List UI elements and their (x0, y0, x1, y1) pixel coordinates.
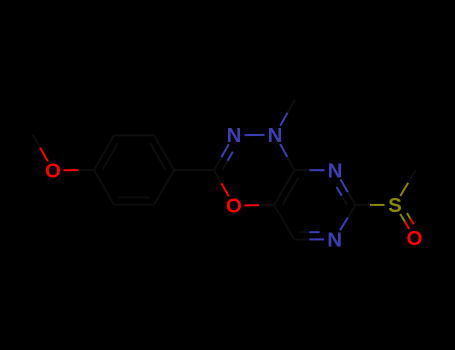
svg-text:N: N (328, 159, 343, 182)
svg-text:O: O (45, 159, 61, 182)
svg-text:N: N (268, 124, 283, 147)
svg-text:S: S (388, 194, 402, 217)
svg-text:N: N (327, 228, 342, 251)
svg-text:O: O (226, 195, 242, 218)
svg-text:O: O (407, 227, 423, 250)
svg-text:N: N (227, 124, 242, 147)
